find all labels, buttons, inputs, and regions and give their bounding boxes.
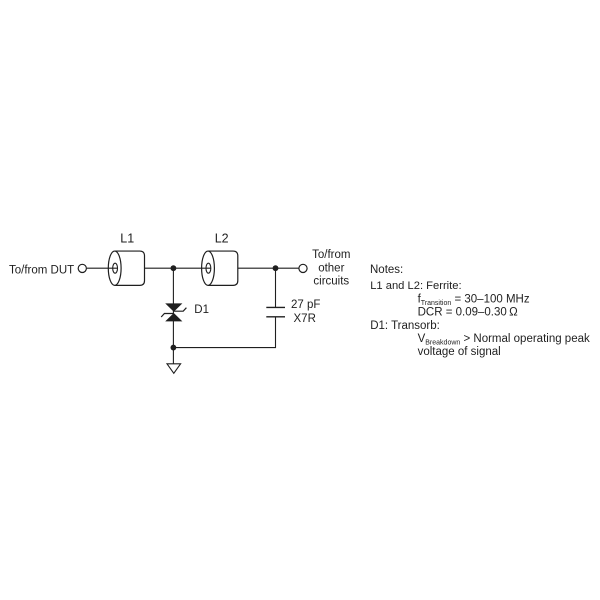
ground	[167, 364, 181, 373]
ferrite bead L1	[108, 251, 144, 285]
terminal To/from other circuits	[299, 264, 307, 272]
wire node A down through D1 to ground	[172, 268, 174, 364]
svg-text:voltage of signal: voltage of signal	[418, 346, 501, 358]
wire capacitor bottom plate to ground bus	[173, 317, 275, 348]
svg-text:Notes:: Notes:	[370, 264, 403, 276]
svg-text:circuits: circuits	[313, 276, 349, 288]
ferrite bead L2	[202, 251, 238, 285]
wire node B down to capacitor top plate	[275, 268, 277, 307]
svg-text:D1: D1	[194, 304, 209, 316]
svg-text:D1: Transorb:: D1: Transorb:	[370, 320, 440, 332]
node B junction dot	[273, 265, 279, 271]
svg-text:L2: L2	[215, 232, 229, 246]
wire DUT terminal to L1	[87, 267, 118, 269]
node A junction dot	[171, 265, 177, 271]
wire L2 to output terminal	[238, 267, 299, 269]
svg-text:other: other	[318, 262, 344, 274]
svg-text:27 pF: 27 pF	[291, 299, 320, 311]
terminal To/from DUT	[78, 264, 86, 272]
svg-text:To/from DUT: To/from DUT	[9, 264, 74, 276]
svg-text:To/from: To/from	[312, 249, 350, 261]
ground bus junction dot	[171, 345, 177, 351]
svg-text:L1: L1	[120, 232, 134, 246]
capacitor C1	[266, 307, 285, 316]
label To/from other circuits	[312, 249, 350, 288]
notes text block	[370, 264, 590, 358]
wire L1 to L2	[145, 267, 211, 269]
svg-text:L1 and L2: Ferrite:: L1 and L2: Ferrite:	[370, 280, 461, 292]
svg-text:X7R: X7R	[294, 313, 316, 325]
transorb D1	[161, 304, 186, 321]
svg-text:DCR = 0.09–0.30 Ω: DCR = 0.09–0.30 Ω	[418, 307, 518, 319]
